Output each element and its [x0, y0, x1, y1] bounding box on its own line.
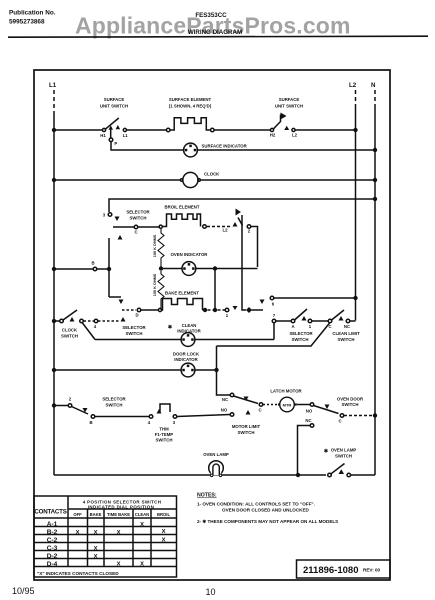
svg-text:10: 10 — [206, 587, 216, 597]
svg-text:SELECTOR: SELECTOR — [122, 325, 146, 330]
svg-text:C-2: C-2 — [47, 537, 58, 544]
svg-text:CLEAN: CLEAN — [182, 323, 197, 328]
svg-text:CLOCK: CLOCK — [204, 172, 220, 177]
svg-text:THM: THM — [159, 427, 169, 432]
svg-text:211896-1080: 211896-1080 — [303, 565, 358, 576]
svg-text:INDICATED DIAL POSITION: INDICATED DIAL POSITION — [88, 504, 154, 509]
svg-text:L1: L1 — [49, 82, 57, 89]
svg-text:X: X — [94, 546, 98, 552]
svg-text:SELECTOR: SELECTOR — [289, 331, 313, 336]
svg-text:FES353CC: FES353CC — [195, 12, 227, 19]
svg-text:B-2: B-2 — [47, 529, 58, 536]
svg-text:C: C — [134, 230, 137, 235]
svg-text:SWITCH: SWITCH — [292, 337, 309, 342]
svg-text:SURFACE ELEMENT: SURFACE ELEMENT — [169, 97, 212, 102]
svg-text:INDICATOR: INDICATOR — [177, 329, 201, 334]
svg-text:TIME BAKE: TIME BAKE — [107, 512, 130, 517]
svg-text:SURFACE INDICATOR: SURFACE INDICATOR — [202, 144, 248, 149]
svg-text:F1-TEMP: F1-TEMP — [155, 432, 174, 437]
svg-text:D: D — [135, 313, 138, 318]
svg-text:"X" INDICATES CONTACTS CLOSED: "X" INDICATES CONTACTS CLOSED — [37, 571, 119, 576]
svg-text:H2: H2 — [270, 132, 276, 137]
svg-text:5995273868: 5995273868 — [9, 19, 45, 26]
svg-text:A-1: A-1 — [47, 521, 58, 528]
svg-text:C-3: C-3 — [47, 545, 58, 552]
svg-text:X: X — [140, 561, 144, 567]
svg-text:X: X — [94, 554, 98, 560]
svg-text:OVEN INDICATOR: OVEN INDICATOR — [171, 252, 209, 257]
svg-text:SELECTOR: SELECTOR — [126, 210, 150, 215]
svg-text:X: X — [94, 530, 98, 536]
svg-text:1- OVEN CONDITION: ALL CONTROL: 1- OVEN CONDITION: ALL CONTROLS SET TO "… — [197, 502, 315, 507]
svg-text:X: X — [117, 561, 121, 567]
svg-text:SWITCH: SWITCH — [338, 337, 355, 342]
svg-text:Publication No.: Publication No. — [9, 10, 56, 17]
svg-text:SURFACE: SURFACE — [279, 97, 300, 102]
svg-text:X: X — [162, 529, 166, 535]
svg-text:MOTOR LIMIT: MOTOR LIMIT — [232, 424, 261, 429]
svg-text:X: X — [76, 530, 80, 536]
svg-text:OVEN DOOR CLOSED AND UNLOCKED: OVEN DOOR CLOSED AND UNLOCKED — [222, 508, 310, 513]
svg-text:NC: NC — [222, 397, 228, 402]
svg-text:SWITCH: SWITCH — [156, 438, 173, 443]
svg-text:H1: H1 — [100, 133, 106, 138]
svg-text:NC: NC — [344, 324, 350, 329]
svg-text:L1: L1 — [123, 133, 129, 138]
svg-text:UNIT SWITCH: UNIT SWITCH — [100, 104, 128, 109]
svg-text:NO: NO — [221, 408, 228, 413]
svg-text:CLOCK: CLOCK — [62, 328, 78, 333]
svg-text:SWITCH: SWITCH — [335, 454, 352, 459]
svg-text:100 K OHMS: 100 K OHMS — [153, 234, 157, 257]
svg-text:B: B — [89, 420, 92, 425]
svg-text:N: N — [371, 82, 376, 89]
svg-text:L2: L2 — [349, 82, 357, 89]
svg-text:WIRING DIAGRAM: WIRING DIAGRAM — [188, 29, 242, 36]
svg-text:SWITCH: SWITCH — [106, 403, 123, 408]
svg-text:REV: 00: REV: 00 — [363, 568, 381, 573]
svg-text:NO: NO — [306, 409, 313, 414]
svg-text:CLEAN LIMIT: CLEAN LIMIT — [332, 331, 360, 336]
svg-text:SELECTOR: SELECTOR — [102, 397, 126, 402]
svg-text:10/95: 10/95 — [12, 586, 35, 596]
svg-text:150 K OHMS: 150 K OHMS — [153, 273, 157, 296]
svg-text:CONTACTS: CONTACTS — [34, 509, 66, 516]
svg-text:DOOR LOCK: DOOR LOCK — [173, 352, 200, 357]
svg-text:D-2: D-2 — [47, 553, 58, 560]
svg-text:OFF: OFF — [73, 512, 82, 517]
svg-text:A: A — [291, 324, 294, 329]
svg-text:OVEN LAMP: OVEN LAMP — [203, 452, 229, 457]
svg-text:(1 SHOWN, 4 REQ'D): (1 SHOWN, 4 REQ'D) — [169, 104, 212, 109]
svg-text:BROIL ELEMENT: BROIL ELEMENT — [164, 205, 199, 210]
svg-text:INDICATOR: INDICATOR — [174, 357, 198, 362]
svg-text:CLEAN: CLEAN — [135, 512, 149, 517]
svg-text:L2: L2 — [292, 132, 298, 137]
svg-text:OVEN DOOR: OVEN DOOR — [337, 397, 364, 402]
svg-text:D-4: D-4 — [47, 561, 58, 568]
svg-text:MTR: MTR — [283, 403, 292, 408]
svg-text:SWITCH: SWITCH — [61, 334, 78, 339]
svg-text:SWITCH: SWITCH — [126, 331, 143, 336]
svg-text:SWITCH: SWITCH — [130, 216, 147, 221]
svg-text:C: C — [258, 408, 261, 413]
svg-text:BROIL: BROIL — [157, 512, 170, 517]
svg-text:BAKE ELEMENT: BAKE ELEMENT — [165, 291, 199, 296]
svg-text:X: X — [117, 530, 121, 536]
svg-text:X: X — [140, 522, 144, 528]
svg-text:SWITCH: SWITCH — [342, 402, 359, 407]
svg-text:LATCH MOTOR: LATCH MOTOR — [270, 389, 302, 394]
svg-text:SWITCH: SWITCH — [238, 430, 255, 435]
svg-text:NOTES:: NOTES: — [197, 493, 217, 499]
svg-text:B: B — [91, 261, 94, 266]
svg-text:UNIT SWITCH: UNIT SWITCH — [275, 104, 303, 109]
svg-text:OVEN LAMP: OVEN LAMP — [331, 448, 357, 453]
svg-text:SURFACE: SURFACE — [104, 97, 125, 102]
svg-text:X: X — [162, 537, 166, 543]
svg-text:P: P — [114, 141, 117, 146]
svg-text:C: C — [338, 419, 341, 424]
svg-text:L2: L2 — [222, 228, 228, 233]
svg-text:2- ✱ THESE COMPONENTS MAY NOT: 2- ✱ THESE COMPONENTS MAY NOT APPEAR ON … — [197, 519, 338, 524]
svg-text:NC: NC — [305, 418, 311, 423]
svg-text:BAKE: BAKE — [90, 512, 102, 517]
